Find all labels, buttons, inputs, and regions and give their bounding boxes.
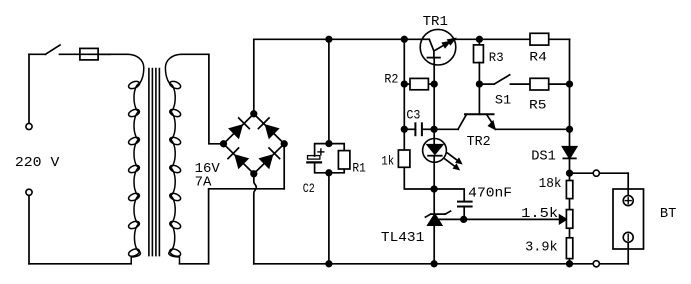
bridge rectifier diamond	[224, 114, 285, 174]
wire TL431 ref	[438, 218, 560, 220]
battery BT	[613, 189, 644, 249]
transistor TR2	[458, 84, 495, 129]
svg-text:R5: R5	[529, 99, 547, 113]
svg-text:TR1: TR1	[423, 14, 448, 30]
wire bridge minus drop with hop	[254, 174, 256, 264]
node emitter rail	[567, 127, 573, 133]
wire R2/1k riser	[403, 39, 405, 150]
node R2 right	[431, 81, 437, 87]
node rail-R2	[402, 37, 408, 43]
diode DS1	[563, 147, 577, 159]
node battery terminal minus	[593, 261, 599, 267]
shunt regulator TL431	[425, 189, 450, 264]
svg-text:C3: C3	[406, 109, 420, 123]
node mains terminal upper	[26, 123, 32, 129]
LED DL1	[423, 139, 462, 190]
transformer T1 core	[149, 69, 160, 256]
wire TR2 collector	[434, 128, 458, 130]
wire TR2 emitter to rail	[496, 128, 570, 130]
node bottom rail right	[567, 261, 573, 267]
resistor 3.9k	[566, 238, 572, 259]
bridge diode D-bottomleft	[228, 148, 248, 168]
wire mains bottom horizontal	[29, 263, 131, 265]
resistor R4	[530, 33, 549, 45]
bridge diode D-bottomright	[260, 148, 280, 168]
capacitor C3	[404, 123, 434, 135]
switch S1	[479, 75, 530, 84]
svg-text:220 V: 220 V	[15, 155, 60, 171]
node R5 rail	[567, 81, 573, 87]
node C2 top	[326, 141, 332, 147]
wire C2/R1 riser	[328, 39, 330, 263]
wire secondary bottom lead	[180, 189, 285, 264]
wire battery minus row	[570, 242, 629, 263]
node bridge right	[281, 141, 287, 147]
svg-text:S1: S1	[495, 94, 511, 108]
node DS1 bottom / battery plus row	[567, 170, 573, 176]
wire bottom rail	[254, 263, 570, 265]
svg-text:DS1: DS1	[531, 149, 556, 165]
node C3 left	[402, 127, 408, 133]
svg-text:1.5k: 1.5k	[521, 206, 558, 222]
fuse F1	[80, 48, 110, 60]
wire TR1 base riser	[433, 65, 435, 139]
resistor R3	[474, 39, 484, 84]
svg-text:R3: R3	[489, 51, 504, 65]
bridge diode D-topright	[258, 118, 278, 138]
wire bridge plus riser	[253, 39, 255, 114]
wire bridge AC right drop	[283, 144, 285, 189]
svg-text:TL431: TL431	[381, 230, 424, 246]
svg-text:R1: R1	[352, 162, 366, 176]
resistor 18k	[566, 181, 572, 199]
node C2 bottom	[326, 170, 332, 176]
node bridge top	[251, 111, 257, 117]
resistor R1	[329, 144, 350, 173]
svg-text:470nF: 470nF	[468, 185, 512, 201]
wire right rail	[569, 39, 571, 263]
node mains terminal lower	[26, 189, 32, 195]
resistor 1k	[398, 150, 434, 189]
node TL431 anode bottom	[431, 261, 437, 267]
transistor TR1	[420, 29, 456, 65]
node battery terminal plus	[593, 170, 599, 176]
svg-text:1k: 1k	[381, 155, 394, 169]
node LED bottom junction	[431, 186, 437, 192]
node R2 left	[402, 81, 408, 87]
capacitor C2	[307, 144, 329, 173]
wire top rail	[254, 38, 570, 40]
svg-text:7A: 7A	[195, 175, 212, 191]
svg-text:C2: C2	[303, 182, 315, 196]
wiper arrow into 1.5k	[560, 215, 567, 223]
svg-text:R4: R4	[529, 50, 547, 64]
transformer T1 primary winding	[128, 54, 144, 263]
svg-text:BT: BT	[660, 206, 677, 222]
node bottom rail C2	[326, 261, 332, 267]
wire left mains vertical bottom	[28, 196, 30, 264]
node bridge bottom	[251, 171, 257, 177]
node rail-C2	[326, 37, 332, 43]
wire secondary top lead	[182, 54, 224, 144]
node bridge left	[221, 141, 227, 147]
node C3 right	[431, 127, 437, 133]
node rail-R3	[477, 37, 483, 43]
bridge diode D-topleft	[230, 118, 250, 138]
wire left mains vertical top	[28, 54, 30, 123]
wire fuse to transformer	[98, 53, 128, 55]
resistor R2	[404, 78, 434, 89]
node 470nF-ref	[461, 217, 467, 223]
svg-text:3.9k: 3.9k	[525, 239, 558, 255]
svg-text:R2: R2	[384, 72, 398, 86]
transformer T1 secondary winding	[165, 54, 181, 263]
node R3-S1	[477, 81, 483, 87]
capacitor 470nF	[434, 189, 472, 219]
svg-text:18k: 18k	[539, 176, 562, 192]
switch SW mains	[29, 45, 80, 54]
resistor 1.5k trimmer	[566, 210, 572, 229]
resistor R5	[530, 78, 570, 90]
wire battery plus row	[570, 173, 629, 195]
svg-text:TR2: TR2	[467, 134, 491, 150]
